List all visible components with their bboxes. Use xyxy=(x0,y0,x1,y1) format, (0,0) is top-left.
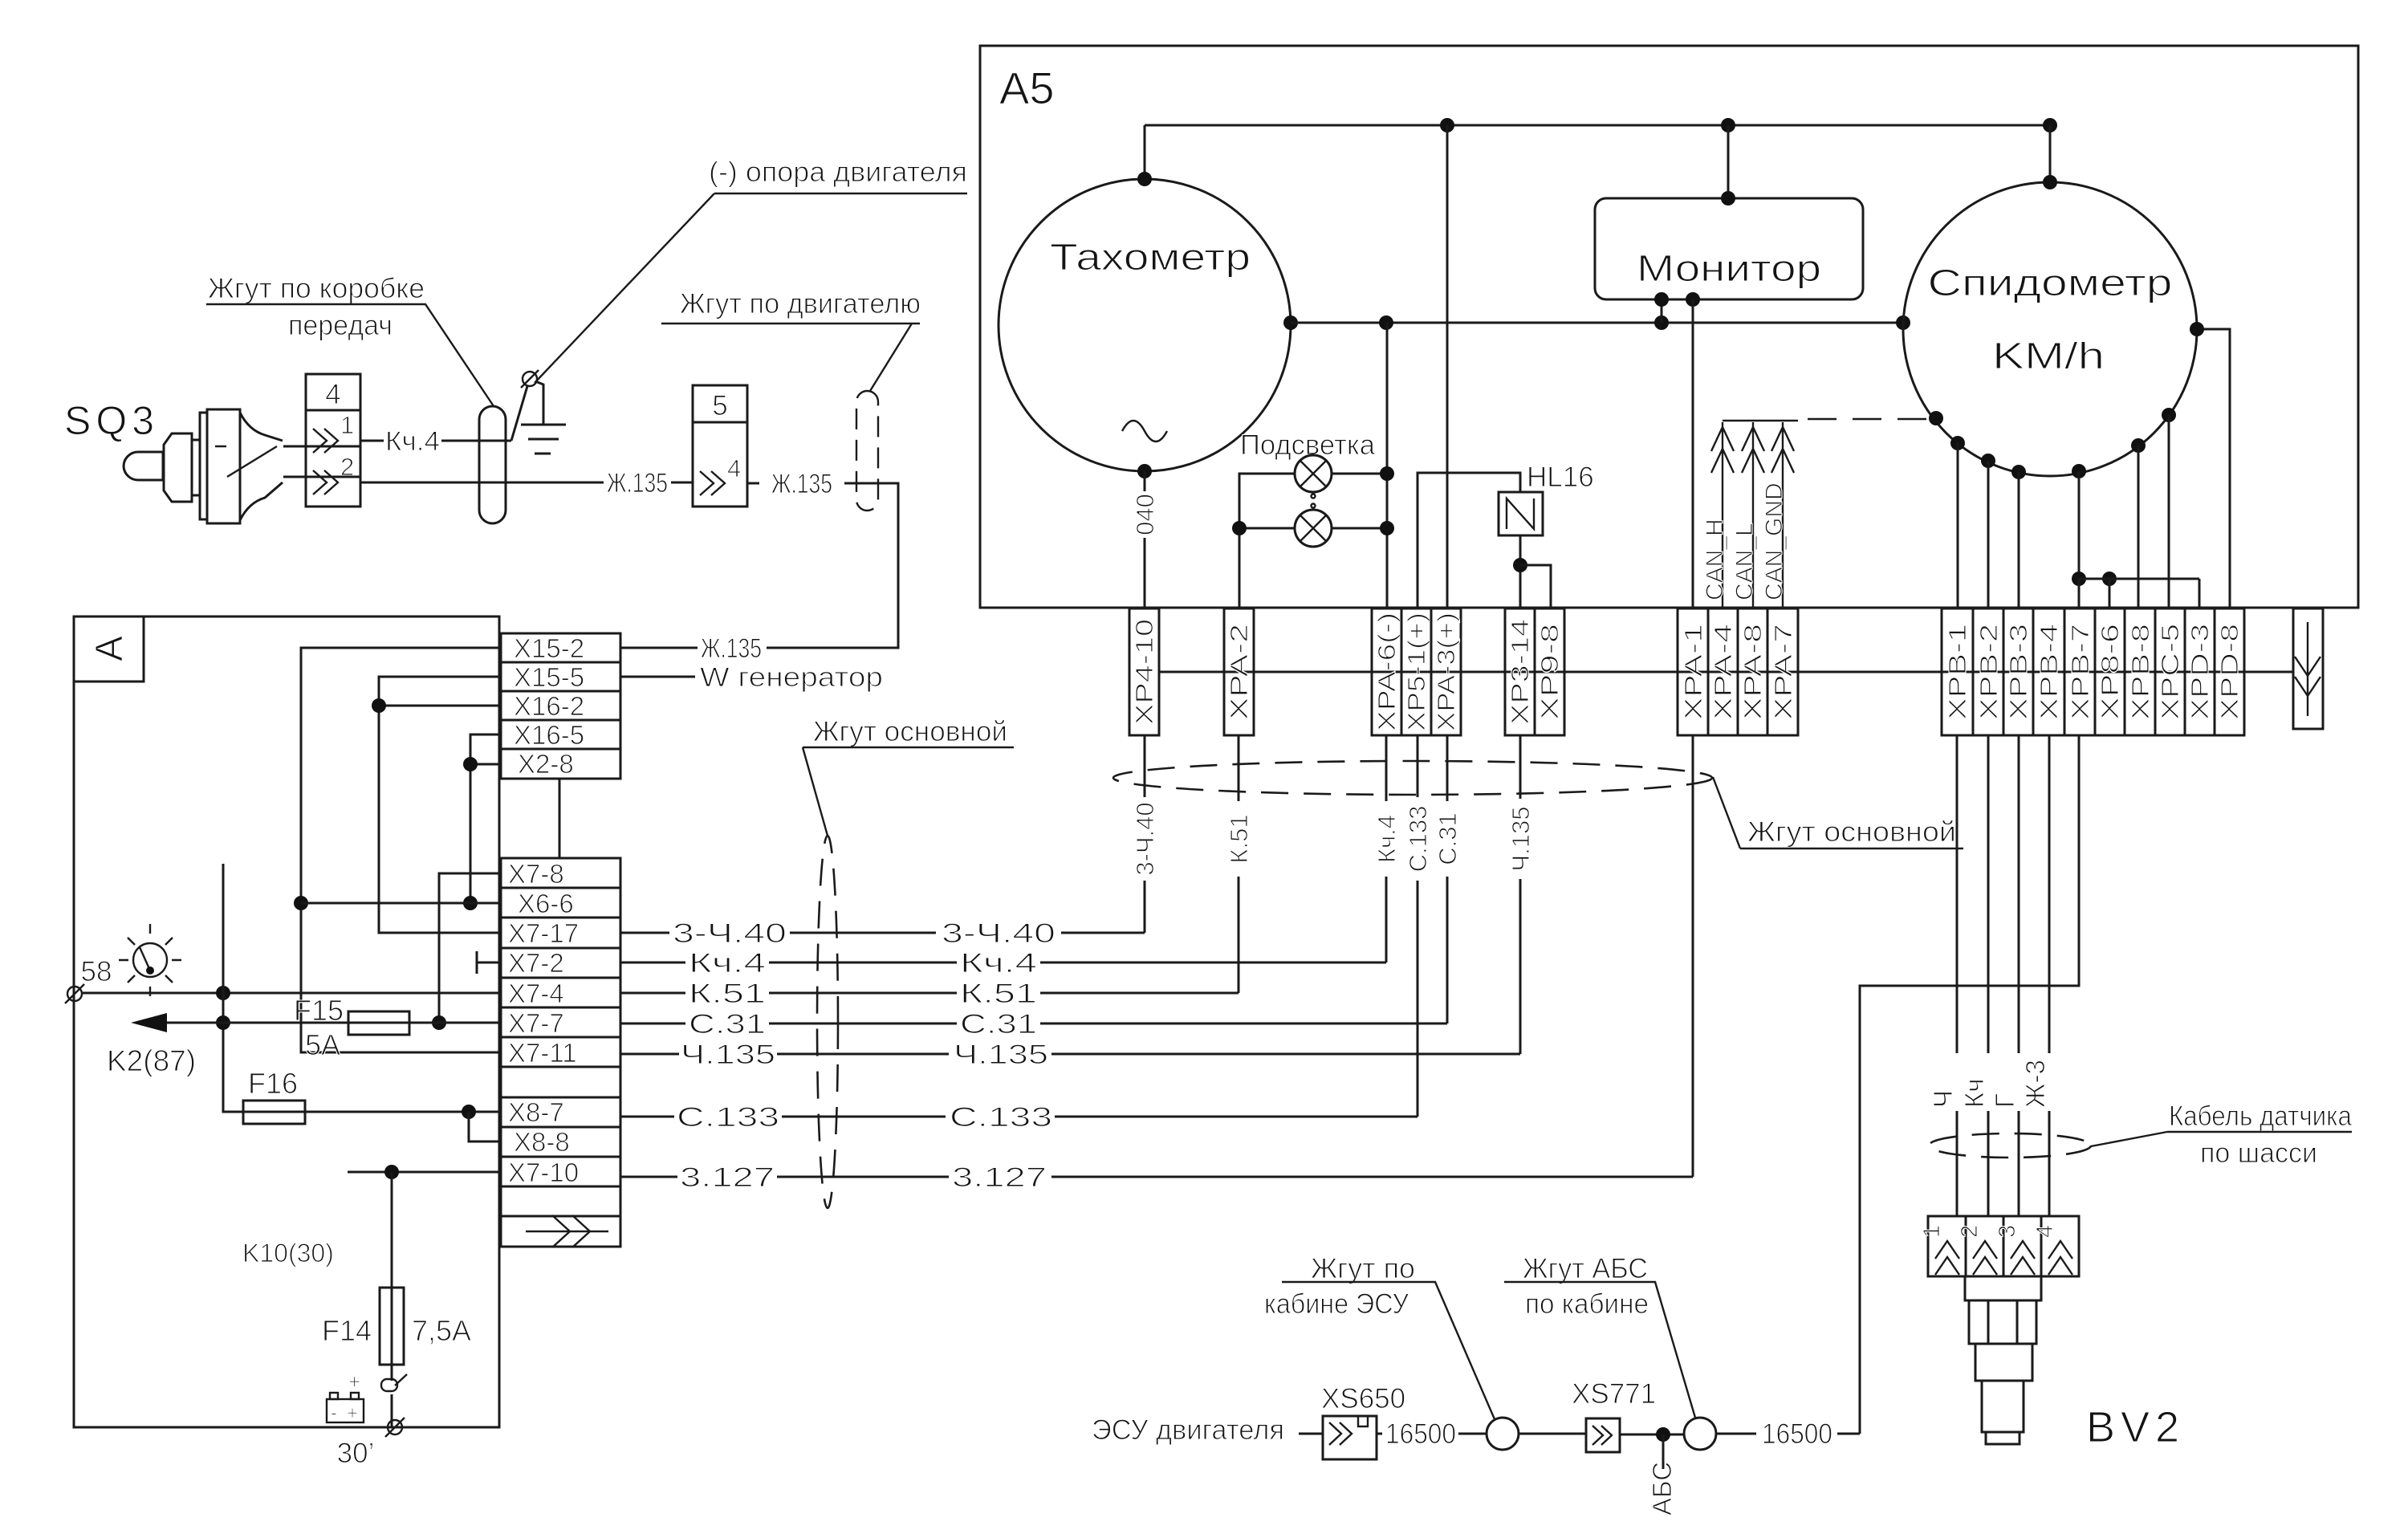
svg-text:Кч.4: Кч.4 xyxy=(1373,815,1401,863)
svg-text:3.127: 3.127 xyxy=(680,1162,775,1193)
svg-text:Кч.4: Кч.4 xyxy=(385,426,440,457)
connector XPB-7 xyxy=(2064,608,2095,735)
svg-text:+: + xyxy=(347,1402,358,1424)
svg-text:30’: 30’ xyxy=(337,1438,375,1469)
indicator HL16 xyxy=(1499,492,1543,535)
lamp upper xyxy=(1295,455,1332,492)
wire XPA-3 down xyxy=(1446,735,1449,1023)
svg-text:XPD-3: XPD-3 xyxy=(2186,624,2214,720)
connector XPB-1 xyxy=(1942,608,1973,735)
CAN arrows group xyxy=(1702,411,1943,608)
node HL16 bottom xyxy=(1513,558,1527,572)
wire speedometer right exit to XPD-8 xyxy=(2197,329,2230,608)
wire and label 16500 right xyxy=(1716,1433,1860,1435)
wire tachometer bottom to XP4-10 xyxy=(1144,471,1146,608)
svg-text:XP5-1(+): XP5-1(+) xyxy=(1402,612,1430,731)
harness capsule gearbox xyxy=(479,406,506,523)
connector XPD-8 xyxy=(2215,608,2244,735)
harness ellipse vertical dashed xyxy=(817,836,838,1208)
sensor cable ellipse dashed xyxy=(1929,1133,2091,1158)
speedometer gauge circle xyxy=(1903,182,2197,476)
svg-text:SQ3: SQ3 xyxy=(64,398,159,443)
svg-text:X7-2: X7-2 xyxy=(508,948,564,978)
node bus speedometer corner xyxy=(2043,118,2057,132)
svg-text:К.51: К.51 xyxy=(689,979,766,1009)
svg-text:4: 4 xyxy=(325,379,340,410)
lamp lower xyxy=(1295,510,1332,547)
fuse F16 xyxy=(243,1101,305,1124)
svg-text:Ч: Ч xyxy=(1928,1090,1958,1108)
node X7-10 xyxy=(384,1165,399,1179)
svg-text:CAN_H: CAN_H xyxy=(1702,519,1728,600)
connector XPB-3 xyxy=(2003,608,2033,735)
top bus wire xyxy=(1145,124,2050,127)
node tachometer top xyxy=(1137,172,1152,186)
node K2 on X7-7 wire xyxy=(216,1015,230,1030)
wire XPB-2 to pin2 xyxy=(1987,735,1990,1216)
switch contact xyxy=(381,1379,397,1391)
node lamp lower left xyxy=(1232,521,1247,535)
node arc XPB-8 xyxy=(2131,438,2146,453)
dots between lamps xyxy=(1312,494,1316,498)
svg-text:Ж.135: Ж.135 xyxy=(701,633,762,664)
svg-text:5: 5 xyxy=(712,390,727,421)
svg-text:1: 1 xyxy=(340,411,354,439)
svg-text:XP8-6: XP8-6 xyxy=(2096,624,2124,720)
wire X16-2 left xyxy=(379,705,501,707)
svg-text:X8-8: X8-8 xyxy=(514,1127,570,1157)
svg-text:по кабине: по кабине xyxy=(1525,1288,1649,1320)
harness exit box right xyxy=(2293,608,2323,729)
svg-text:С.31: С.31 xyxy=(1434,812,1462,865)
svg-text:4: 4 xyxy=(727,454,741,482)
connector XPA-1 xyxy=(1678,608,1708,735)
terminal X7-2 xyxy=(477,951,501,974)
connector XP3-14 xyxy=(1505,608,1535,735)
node lamps drop xyxy=(1379,315,1393,330)
wire X7-8 left drop v4 xyxy=(439,873,501,1023)
wire XPB-4 to pin4 xyxy=(2048,735,2051,1216)
wire into XPB-7 xyxy=(2078,579,2081,608)
wire relay K2 vertical xyxy=(223,864,243,1112)
svg-text:X7-17: X7-17 xyxy=(508,918,579,948)
connector XP5-1(+) xyxy=(1401,608,1431,735)
wire to XPB-1 xyxy=(1957,443,1959,608)
svg-text:XPB-7: XPB-7 xyxy=(2066,624,2094,720)
horizontal wire С.133 xyxy=(620,1102,1418,1133)
svg-text:+: + xyxy=(348,1369,360,1394)
wire dashed CAN link to speedometer xyxy=(1808,418,1936,420)
horizontal wire С.31 xyxy=(620,1009,1447,1040)
arrowhead K2 xyxy=(131,1013,167,1032)
svg-text:KM/h: KM/h xyxy=(1992,335,2105,376)
wire CAN_GND arrow xyxy=(1771,422,1794,608)
wire Ж.135 from pin2 xyxy=(360,482,693,484)
svg-text:CAN_L: CAN_L xyxy=(1731,523,1758,600)
svg-text:Жгут по коробке: Жгут по коробке xyxy=(208,273,425,304)
connector XP9-8 xyxy=(1535,608,1564,735)
wire to XS650 xyxy=(1299,1433,1323,1435)
svg-text:XPD-8: XPD-8 xyxy=(2215,624,2243,720)
svg-text:XP4-10: XP4-10 xyxy=(1130,619,1158,725)
svg-text:X7-8: X7-8 xyxy=(508,859,564,889)
connector column group 1 xyxy=(501,633,620,779)
svg-text:X7-7: X7-7 xyxy=(508,1008,564,1038)
wire pair bus xyxy=(2079,578,2199,580)
sensor BV2 body xyxy=(1965,1276,2041,1300)
wire and label 16500 xyxy=(1377,1433,1487,1435)
svg-text:Ж.135: Ж.135 xyxy=(607,468,668,498)
junction circle 1 xyxy=(1487,1418,1519,1450)
mid bus wire xyxy=(1291,322,1903,324)
node v2 X16-2 xyxy=(372,698,386,713)
connector row boxes xyxy=(1129,608,2244,735)
pin 2 chevron xyxy=(313,470,338,494)
wire gap for X15-2 label handled: overlay white xyxy=(698,636,767,660)
svg-text:HL16: HL16 xyxy=(1527,462,1594,493)
monitor box xyxy=(1595,198,1863,299)
connector box 5 xyxy=(693,385,747,507)
svg-text:К.51: К.51 xyxy=(1225,814,1253,863)
connector XPC-5 xyxy=(2155,608,2185,735)
svg-text:X8-7: X8-7 xyxy=(508,1097,564,1127)
label (-) опора двигателя xyxy=(535,157,967,383)
ground symbol xyxy=(521,425,566,454)
svg-text:XPC-5: XPC-5 xyxy=(2156,624,2184,720)
wire to XPB-8 xyxy=(2138,446,2140,608)
wire XPA-6(-) riser xyxy=(1386,323,1389,608)
svg-text:Ч.135: Ч.135 xyxy=(1507,807,1535,872)
junction circle 2 xyxy=(1684,1418,1716,1450)
wire F16 to X8-7 xyxy=(243,1111,501,1113)
wire Кч.4 from pin1 xyxy=(360,440,511,442)
svg-text:Г: Г xyxy=(1990,1093,2020,1108)
svg-text:F14: F14 xyxy=(322,1314,372,1347)
label Жгут основной left xyxy=(803,716,1014,836)
wire HL16 bottom to XP3-14 xyxy=(1519,535,1522,608)
node bus monitor drop xyxy=(1721,118,1735,132)
svg-text:ЭСУ двигателя: ЭСУ двигателя xyxy=(1092,1414,1284,1446)
node K2 on 58 wire xyxy=(216,986,230,1000)
node arc XPC-5 xyxy=(2162,408,2176,422)
rheostat dial symbol xyxy=(119,924,181,996)
wire XP5-1(+) riser to HL16 xyxy=(1418,473,1520,608)
wire lamps left bracket to XPA-2 xyxy=(1239,474,1295,608)
wire XP4-10 down xyxy=(1144,735,1146,933)
node monitor top xyxy=(1721,191,1735,205)
horizontal wire Ч.135 xyxy=(620,1040,1520,1070)
fuse F14 xyxy=(380,1288,404,1365)
node arc XPB-1 xyxy=(1950,436,1965,450)
wire monitor riser xyxy=(1727,125,1730,198)
wire XPB-1 to pin1 xyxy=(1956,735,1959,1216)
BV2 connector box xyxy=(1928,1216,2079,1276)
connector XPB-4 xyxy=(2033,608,2064,735)
wire arrow tip bar xyxy=(1723,420,1798,421)
svg-text:Кч: Кч xyxy=(1959,1079,1989,1108)
svg-text:Кч.4: Кч.4 xyxy=(960,948,1037,979)
node tachometer bottom xyxy=(1137,464,1152,478)
svg-text:XPB-2: XPB-2 xyxy=(1975,624,2003,720)
node v1 X6-6 xyxy=(294,896,308,910)
svg-text:-: - xyxy=(331,1402,337,1424)
svg-text:58: 58 xyxy=(81,956,112,987)
tachometer gauge circle xyxy=(999,179,1291,471)
node arc XPB-3 xyxy=(2011,465,2026,479)
connector row link line xyxy=(1159,671,2293,673)
svg-text:XPA-6(-): XPA-6(-) xyxy=(1373,612,1401,731)
svg-text:16500: 16500 xyxy=(1762,1418,1832,1450)
harness ellipse horizontal dashed xyxy=(1113,761,1712,795)
svg-text:X15-2: X15-2 xyxy=(514,633,584,663)
wire CAN_H arrow xyxy=(1711,422,1734,608)
svg-text:Жгут основной: Жгут основной xyxy=(1747,816,1956,848)
wire to XPC-5 xyxy=(2168,415,2170,608)
svg-text:XS771: XS771 xyxy=(1572,1378,1656,1410)
wire ABS stub xyxy=(1662,1434,1665,1469)
node lamp lower right xyxy=(1380,521,1394,535)
battery GB xyxy=(327,1369,364,1424)
node monitor bottom left xyxy=(1654,292,1669,307)
svg-text:A5: A5 xyxy=(999,63,1055,113)
node speedometer left xyxy=(1896,315,1910,330)
horizontal wire Кч.4 xyxy=(620,948,1386,979)
wire into XPD-3 xyxy=(2199,579,2201,608)
node lamp upper right xyxy=(1380,466,1394,481)
svg-text:7,5A: 7,5A xyxy=(412,1314,471,1347)
svg-text:X7-10: X7-10 xyxy=(508,1158,579,1187)
wire X7-10 stub xyxy=(348,1171,501,1174)
svg-text:Ч.135: Ч.135 xyxy=(954,1040,1048,1070)
wire to junction 2 xyxy=(1620,1434,1684,1436)
wire XPA-2 down xyxy=(1238,735,1240,993)
wire to XS771 xyxy=(1519,1433,1586,1435)
connector XS771 xyxy=(1586,1418,1620,1452)
wire jog to XP9-8 xyxy=(1520,565,1551,608)
pin chevrons up xyxy=(1935,1241,1959,1275)
svg-text:Ж.135: Ж.135 xyxy=(771,469,832,499)
wire battery feed xyxy=(391,1172,393,1427)
wire 16500 riser to XPB-7 xyxy=(1860,735,2079,1434)
svg-text:Кабель датчика: Кабель датчика xyxy=(2169,1101,2352,1132)
svg-text:XP3-14: XP3-14 xyxy=(1506,619,1534,725)
connector XPB-8 xyxy=(2125,608,2155,735)
svg-text:XPA-4: XPA-4 xyxy=(1709,624,1737,720)
node speedometer right xyxy=(2190,322,2204,336)
wire X7-7 with arrow xyxy=(165,1022,501,1024)
svg-text:X7-11: X7-11 xyxy=(508,1038,577,1068)
svg-text:Жгут АБС: Жгут АБС xyxy=(1523,1253,1648,1284)
svg-text:Кч.4: Кч.4 xyxy=(689,948,766,979)
svg-text:Спидометр: Спидометр xyxy=(1928,262,2173,303)
svg-text:Монитор: Монитор xyxy=(1637,247,1821,289)
wire lamps right bracket xyxy=(1332,474,1387,528)
svg-text:1: 1 xyxy=(1919,1225,1945,1238)
wire Ж.135 pin4 xyxy=(620,483,898,648)
connector XPA-6(-) xyxy=(1372,608,1401,735)
wire XPA-3(+) riser xyxy=(1446,125,1449,608)
svg-text:Жгут по двигателю: Жгут по двигателю xyxy=(680,288,921,319)
svg-text:АБС: АБС xyxy=(1647,1462,1677,1516)
svg-text:Ж-3: Ж-3 xyxy=(2020,1060,2050,1108)
svg-text:K2(87): K2(87) xyxy=(107,1044,196,1077)
svg-text:2: 2 xyxy=(340,453,354,481)
wire X2-8 left xyxy=(470,763,501,766)
connector XPA-4 xyxy=(1708,608,1738,735)
svg-text:3-Ч.40: 3-Ч.40 xyxy=(673,918,787,949)
svg-text:по шасси: по шасси xyxy=(2200,1137,2317,1169)
node v4 X7-7 xyxy=(432,1015,446,1030)
svg-text:F16: F16 xyxy=(248,1067,298,1100)
connector XP8-6 xyxy=(2095,608,2125,735)
svg-text:4: 4 xyxy=(2032,1225,2058,1238)
node monitor stub xyxy=(1654,315,1669,330)
wire X15-2 left drop v1 xyxy=(301,648,501,1052)
svg-text:Ч.135: Ч.135 xyxy=(681,1040,775,1070)
horizontal wire 3.127 xyxy=(620,1162,1693,1193)
svg-text:XPA-2: XPA-2 xyxy=(1225,624,1253,720)
horizontal wire 3-Ч.40 xyxy=(620,918,1145,949)
wire X8-7 to X8-8 xyxy=(469,1112,501,1141)
svg-text:передач: передач xyxy=(288,310,393,341)
terminal bolt xyxy=(523,372,537,386)
wires below connector row with labels xyxy=(1131,735,1693,1177)
label Жгут по двигателю xyxy=(661,288,921,391)
wire arc to pair bus xyxy=(2078,471,2081,579)
wire XP3-14 down xyxy=(1519,735,1522,1054)
svg-text:X6-6: X6-6 xyxy=(518,889,574,918)
sensor SQ3 body xyxy=(124,409,360,523)
svg-text:С.133: С.133 xyxy=(950,1102,1052,1133)
wire XPB-3 to pin3 xyxy=(2018,735,2020,1216)
wire CAN_L arrow xyxy=(1742,422,1764,608)
label Жгут по коробке передач xyxy=(206,273,494,406)
connector XPA-7 xyxy=(1767,608,1798,735)
connector column group 2 xyxy=(501,858,620,1247)
BV2 speed sensor section xyxy=(1919,735,2352,1451)
svg-text:С.133: С.133 xyxy=(1404,806,1432,873)
svg-text:5A: 5A xyxy=(305,1028,340,1061)
svg-text:040: 040 xyxy=(1131,494,1159,535)
connector XPA-2 xyxy=(1224,608,1254,735)
wire X2-8 to X7-8 through boxes xyxy=(559,779,561,858)
node v3 X6-6 xyxy=(463,896,478,910)
svg-text:С.31: С.31 xyxy=(689,1009,766,1040)
node pair left xyxy=(2072,572,2086,586)
wire to XPB-3 xyxy=(2018,472,2020,608)
wire monitor to XPA-1 xyxy=(1692,299,1694,608)
svg-text:X2-8: X2-8 xyxy=(518,749,574,779)
svg-text:К.51: К.51 xyxy=(960,979,1037,1009)
svg-text:Тахометр: Тахометр xyxy=(1050,236,1251,278)
svg-text:X16-2: X16-2 xyxy=(514,691,584,721)
wire into XP8-6 xyxy=(2109,579,2111,608)
wire X16-5 left drop v3 xyxy=(470,734,501,903)
svg-text:A: A xyxy=(88,636,131,661)
node tachometer right xyxy=(1283,315,1298,330)
svg-text:F15: F15 xyxy=(294,994,344,1027)
svg-text:XPA-8: XPA-8 xyxy=(1739,624,1767,720)
instrument cluster box A5 xyxy=(980,46,2358,608)
svg-text:K10(30): K10(30) xyxy=(242,1239,334,1268)
node bus XPA-3 drop xyxy=(1440,118,1454,132)
connector XPB-2 xyxy=(1973,608,2003,735)
terminal 58 screw xyxy=(67,987,82,1001)
svg-text:3: 3 xyxy=(1995,1225,2020,1238)
connector XS650 xyxy=(1323,1416,1377,1459)
svg-text:XPA-1: XPA-1 xyxy=(1679,624,1707,720)
svg-text:XPB-4: XPB-4 xyxy=(2035,624,2063,720)
wire bolt to ground xyxy=(535,381,543,425)
svg-text:XPB-3: XPB-3 xyxy=(2004,624,2032,720)
svg-text:XPA-3(+): XPA-3(+) xyxy=(1432,612,1460,731)
wire X6-6 left xyxy=(301,902,501,905)
svg-text:2: 2 xyxy=(1957,1225,1983,1238)
node v3 X2-8 xyxy=(463,757,478,771)
wire W generator stub xyxy=(620,676,695,678)
svg-text:Жгут основной: Жгут основной xyxy=(813,716,1007,747)
wire XPA-1 down to 3.127 xyxy=(1692,735,1694,1177)
svg-text:16500: 16500 xyxy=(1385,1418,1456,1450)
svg-text:XPA-7: XPA-7 xyxy=(1769,624,1797,720)
label box A xyxy=(74,616,144,682)
harness capsule engine dashed xyxy=(856,391,878,511)
wire XPA-6 down xyxy=(1385,735,1388,962)
node ABS tap xyxy=(1656,1427,1670,1442)
horizontal wire К.51 xyxy=(620,979,1239,1009)
svg-text:3.127: 3.127 xyxy=(952,1162,1047,1193)
connector box 4 xyxy=(306,374,360,507)
node arc XPB-2 xyxy=(1981,454,1995,468)
connector XP4-10 xyxy=(1129,608,1159,735)
node speedometer top xyxy=(2043,175,2057,189)
svg-text:С.31: С.31 xyxy=(960,1009,1037,1040)
svg-text:XP9-8: XP9-8 xyxy=(1536,624,1564,720)
relay unit box A xyxy=(74,616,499,1427)
svg-text:С.133: С.133 xyxy=(677,1102,779,1133)
terminal 30' screw xyxy=(388,1420,402,1434)
svg-text:W генератор: W генератор xyxy=(700,662,883,693)
node monitor bottom right xyxy=(1686,292,1700,307)
pin 1 chevron xyxy=(313,429,338,453)
wire X15-5 left drop v2 xyxy=(379,677,501,933)
wire XP5-1 down xyxy=(1417,735,1419,1117)
svg-text:Жгут по: Жгут по xyxy=(1311,1253,1415,1284)
svg-text:X15-5: X15-5 xyxy=(514,662,584,692)
svg-text:3-Ч.40: 3-Ч.40 xyxy=(1131,802,1159,875)
wire tachometer top to top bus xyxy=(1144,125,1146,179)
svg-text:XPB-1: XPB-1 xyxy=(1943,624,1971,720)
wire 58 to X7-4 xyxy=(81,992,501,995)
svg-text:(-) опора двигателя: (-) опора двигателя xyxy=(709,157,967,188)
svg-text:XPB-8: XPB-8 xyxy=(2126,624,2154,720)
speedometer bottom arc drops xyxy=(1950,408,2199,608)
tachometer AC sine symbol xyxy=(1122,421,1167,442)
fuse F15 xyxy=(348,1011,409,1035)
node pair right xyxy=(2102,572,2117,586)
svg-text:X7-4: X7-4 xyxy=(508,979,564,1008)
wire monitor stub to bus xyxy=(1661,299,1663,323)
wire to XPB-2 xyxy=(1987,461,1990,608)
svg-text:3-Ч.40: 3-Ч.40 xyxy=(942,918,1056,949)
connector XPD-3 xyxy=(2185,608,2215,735)
label Жгут основной right xyxy=(1713,777,1963,848)
svg-text:кабине ЭСУ: кабине ЭСУ xyxy=(1264,1288,1409,1320)
svg-text:CAN_GND: CAN_GND xyxy=(1761,482,1788,600)
svg-text:BV2: BV2 xyxy=(2086,1403,2185,1451)
node X8-7 xyxy=(462,1105,476,1119)
connector XPA-8 xyxy=(1738,608,1767,735)
